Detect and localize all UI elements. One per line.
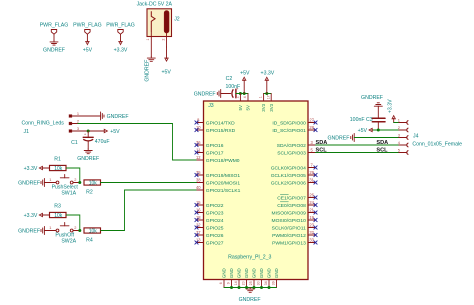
svg-text:3V3: 3V3 <box>261 103 266 111</box>
svg-text:28: 28 <box>309 125 314 130</box>
svg-text:SCL: SCL <box>316 148 328 154</box>
svg-text:470uF: 470uF <box>95 139 110 145</box>
svg-text:26: 26 <box>309 193 314 198</box>
svg-text:SW2A: SW2A <box>61 239 76 245</box>
svg-text:GPIO24: GPIO24 <box>206 218 224 224</box>
svg-text:SDA: SDA <box>316 140 328 146</box>
J3 right pin 21 MISO0/GPIO09 <box>272 208 318 217</box>
svg-text:5: 5 <box>398 148 400 153</box>
svg-text:+: + <box>236 87 238 91</box>
J3 bottom pin 14 GND <box>234 268 242 287</box>
svg-text:J4: J4 <box>413 134 419 140</box>
J3 bottom pin 20 GND <box>242 268 250 287</box>
power flag PWR_FLAG at +5V <box>73 23 102 41</box>
wire C2 to 5V pins <box>236 93 248 95</box>
svg-text:GNDREF: GNDREF <box>18 181 40 187</box>
svg-text:GPIO17: GPIO17 <box>206 150 224 156</box>
svg-text:GNDREF: GNDREF <box>194 92 216 98</box>
wire R4 to GPIO21 <box>101 190 197 231</box>
svg-text:GPIO20/MOSI1: GPIO20/MOSI1 <box>206 180 241 186</box>
svg-text:3: 3 <box>77 126 79 131</box>
resistor R1 10k <box>50 157 67 172</box>
ground GNDREF at SW2A pin 1 <box>18 227 44 235</box>
svg-text:19: 19 <box>309 215 314 220</box>
connector J1 Conn_RING_Leds <box>22 111 80 135</box>
connector J2 Jack-DC 5V 2A <box>137 2 180 57</box>
svg-text:GPIO16: GPIO16 <box>206 143 224 149</box>
J3 left pin 35 GPIO19/MISO1 <box>195 170 241 179</box>
svg-text:1: 1 <box>49 225 51 230</box>
svg-text:+3.3V: +3.3V <box>24 213 38 219</box>
svg-text:10k: 10k <box>54 166 63 172</box>
ground GNDREF at J1 pin 1 <box>101 112 129 120</box>
svg-text:PushSelect: PushSelect <box>52 184 79 190</box>
junction at +3.3V symbol base <box>265 92 268 95</box>
svg-text:20: 20 <box>242 281 246 285</box>
svg-text:17: 17 <box>266 95 270 99</box>
svg-text:PWM0/GPIO12: PWM0/GPIO12 <box>272 233 306 239</box>
junction on GND rail <box>268 286 271 289</box>
svg-text:14: 14 <box>234 281 238 285</box>
svg-text:2: 2 <box>74 177 76 182</box>
IC J3 Raspberry_PI_2_3 body <box>204 101 309 280</box>
svg-text:2: 2 <box>236 96 240 98</box>
resistor R2 10k <box>84 180 101 196</box>
power +5V at J4 pin 2 <box>358 128 373 134</box>
junction switch node <box>78 181 81 184</box>
switch SW1A PushSelect <box>44 175 79 197</box>
svg-text:1: 1 <box>77 111 79 116</box>
J3 left pin 11 GPIO17 <box>195 148 224 157</box>
svg-text:2: 2 <box>74 225 76 230</box>
ground GNDREF under J3 <box>239 288 261 304</box>
pin J1-2 stub <box>72 123 78 125</box>
J3 right pin 32 PWM0/GPIO12 <box>272 230 317 239</box>
svg-text:C1: C1 <box>71 140 78 146</box>
svg-text:J2: J2 <box>174 16 180 22</box>
power +3.3V at J4 pin 1 <box>388 99 396 123</box>
svg-text:GPIO25: GPIO25 <box>206 225 224 231</box>
svg-text:GCLK1/GPIO05: GCLK1/GPIO05 <box>271 173 306 179</box>
svg-text:2: 2 <box>77 118 79 123</box>
svg-text:10k: 10k <box>89 228 98 234</box>
J3 left pin 40 GPIO21/SCLK1 <box>196 185 241 194</box>
J3 left pin 12 GPIO18/PWM0 <box>196 155 240 164</box>
power flag PWR_FLAG at GNDREF <box>40 23 69 41</box>
svg-text:+3.3V: +3.3V <box>114 47 128 53</box>
svg-text:33: 33 <box>309 238 314 243</box>
svg-text:GND: GND <box>222 268 227 278</box>
svg-text:GCLK2/GPIO06: GCLK2/GPIO06 <box>271 180 306 186</box>
svg-text:GPIO19/MISO1: GPIO19/MISO1 <box>206 173 241 179</box>
J3 right pin 24 CE0/GPIO08 <box>277 200 317 209</box>
wire GNDREF to J4 pin 3 <box>354 137 399 139</box>
svg-text:GND: GND <box>267 268 272 278</box>
svg-text:30: 30 <box>257 281 261 285</box>
junction on GND rail <box>260 286 263 289</box>
J3 bottom pin 25 GND <box>249 268 257 287</box>
J3 bottom pin 9 GND <box>227 268 235 287</box>
junction at C1 <box>87 130 90 133</box>
power +3.3V at R3 <box>24 213 50 219</box>
svg-text:GND: GND <box>244 268 249 278</box>
J3 right pin 29 GCLK1/GPIO05 <box>271 170 318 179</box>
svg-text:MOSI0/GPIO10: MOSI0/GPIO10 <box>272 218 307 224</box>
svg-text:GCLK0/GPIO04: GCLK0/GPIO04 <box>271 165 306 171</box>
svg-text:+5V: +5V <box>83 47 93 53</box>
wire R1 to switch node <box>66 168 80 183</box>
svg-text:31: 31 <box>309 178 314 183</box>
capacitor C2 100nF <box>225 76 240 98</box>
J3 left pin 22 GPIO25 <box>195 223 224 232</box>
svg-text:PWM1/GPIO13: PWM1/GPIO13 <box>272 240 306 246</box>
J3 left pin 36 GPIO16 <box>195 140 224 149</box>
pin J1-3 to +5V <box>72 130 104 132</box>
junction at +5V symbol base <box>243 92 246 95</box>
wire GNDREF to C2 <box>221 93 231 95</box>
svg-text:+5V: +5V <box>162 70 172 76</box>
svg-text:SDA/GPIO02: SDA/GPIO02 <box>277 143 306 149</box>
power symbol +3.3V under PWR_FLAG <box>114 40 128 53</box>
svg-text:21: 21 <box>309 208 314 213</box>
wire SCL net GPIO3 to J4 pin 5 <box>316 152 399 154</box>
J3 right pin 26 CE1/GPIO07 <box>277 193 317 202</box>
svg-text:ID_SD/GPIO00: ID_SD/GPIO00 <box>272 120 306 126</box>
J3 top pin 1 3V3 <box>259 94 267 112</box>
wire +5V to J4 pin 2 <box>372 129 399 131</box>
svg-text:6: 6 <box>219 282 223 284</box>
ground GNDREF under C1 <box>77 149 99 162</box>
svg-text:C2: C2 <box>226 76 233 82</box>
J3 top pin 4 5V <box>243 94 251 111</box>
J3 left pin 10 GPIO15/RXD <box>195 125 236 134</box>
J3 right pin 23 SCLK0/GPIO11 <box>272 223 318 232</box>
J3 bottom pin 30 GND <box>257 268 265 287</box>
svg-text:GNDREF: GNDREF <box>107 114 129 120</box>
power +5V at J2 pin 2 <box>162 47 172 76</box>
svg-text:40: 40 <box>196 185 201 190</box>
J3 left pin 15 GPIO22 <box>195 200 224 209</box>
svg-text:3V3: 3V3 <box>269 103 274 111</box>
svg-text:GNDREF: GNDREF <box>327 136 349 142</box>
svg-text:GND: GND <box>237 268 242 278</box>
svg-text:+3.3V: +3.3V <box>388 99 394 113</box>
svg-text:CE1/GPIO07: CE1/GPIO07 <box>277 195 306 201</box>
svg-text:10k: 10k <box>54 213 63 219</box>
J3 bottom pin 39 GND <box>272 268 280 287</box>
svg-text:+: + <box>84 132 86 136</box>
J3 left pin 37 GPIO26 <box>195 230 224 239</box>
svg-text:Conn_01x05_Female: Conn_01x05_Female <box>412 142 462 148</box>
svg-text:+5V: +5V <box>240 71 250 77</box>
svg-text:1: 1 <box>398 118 400 123</box>
svg-text:GPIO15/RXD: GPIO15/RXD <box>206 128 236 134</box>
svg-text:5V: 5V <box>246 105 251 110</box>
J3 right pin 31 GCLK2/GPIO06 <box>271 178 318 187</box>
wire SDA net GPIO2 to J4 pin 4 <box>316 144 399 146</box>
svg-text:12: 12 <box>196 155 201 160</box>
J3 left pin 38 GPIO20/MOSI1 <box>196 178 240 187</box>
svg-text:GND: GND <box>229 268 234 278</box>
J3 right pin 7 GCLK0/GPIO04 <box>271 163 318 172</box>
svg-text:GNDREF: GNDREF <box>239 297 261 303</box>
svg-text:GNDREF: GNDREF <box>144 60 150 82</box>
power +5V at J1 pin 3 <box>104 129 120 135</box>
svg-text:3: 3 <box>398 133 400 138</box>
svg-text:+3.3V: +3.3V <box>261 71 275 77</box>
svg-text:2: 2 <box>161 38 165 40</box>
switch SW2A PushOff <box>44 223 79 245</box>
resistor R4 10k <box>84 228 101 244</box>
wire R3 to switch node <box>66 215 80 231</box>
svg-text:+5V: +5V <box>358 128 368 134</box>
svg-text:1: 1 <box>49 177 51 182</box>
svg-text:GNDREF: GNDREF <box>77 156 99 162</box>
svg-text:Conn_RING_Leds: Conn_RING_Leds <box>22 121 65 127</box>
svg-text:PWR_FLAG: PWR_FLAG <box>106 23 135 29</box>
svg-text:MISO0/GPIO09: MISO0/GPIO09 <box>272 210 307 216</box>
wire J1 pin2 to GPIO18 <box>78 124 197 161</box>
ground GNDREF at SW1A pin 1 <box>18 179 44 187</box>
capacitor C3 100nF <box>350 117 385 130</box>
J3 left pin 13 GPIO27 <box>195 238 224 247</box>
power +3.3V at R1 <box>24 166 50 172</box>
svg-text:1: 1 <box>146 38 150 40</box>
J3 left pin 18 GPIO24 <box>195 215 224 224</box>
J3 right pin 33 PWM1/GPIO13 <box>272 238 317 247</box>
svg-text:+5V: +5V <box>110 129 120 135</box>
power +3.3V above J3 <box>261 71 275 94</box>
svg-text:PWR_FLAG: PWR_FLAG <box>73 23 102 29</box>
junction on GND rail <box>245 286 248 289</box>
junction on GND rail <box>230 286 233 289</box>
power +5V above J3 <box>240 71 250 94</box>
svg-text:39: 39 <box>272 281 276 285</box>
svg-text:27: 27 <box>309 118 314 123</box>
ground GNDREF above C3 <box>361 95 383 117</box>
svg-text:24: 24 <box>309 200 314 205</box>
svg-text:25: 25 <box>249 281 253 285</box>
svg-text:R3: R3 <box>54 204 61 210</box>
svg-text:GPIO21/SCLK1: GPIO21/SCLK1 <box>206 188 241 194</box>
ground GNDREF under PWR_FLAG 1 <box>43 40 65 53</box>
junction on GND rail <box>253 286 256 289</box>
svg-text:Raspberry_PI_2_3: Raspberry_PI_2_3 <box>228 255 271 261</box>
svg-text:GND: GND <box>274 268 279 278</box>
svg-text:PWR_FLAG: PWR_FLAG <box>40 23 69 29</box>
svg-text:J3: J3 <box>208 103 214 109</box>
J3 right pin 19 MOSI0/GPIO10 <box>272 215 318 224</box>
J3 right pin 3 SDA/GPIO02 <box>277 140 316 149</box>
resistor R3 10k <box>50 204 67 219</box>
svg-text:GPIO14/TXD: GPIO14/TXD <box>206 120 235 126</box>
J3 right pin 27 ID_SD/GPIO00 <box>272 118 317 127</box>
pin J1-1 to ground <box>72 115 101 117</box>
svg-text:GNDREF: GNDREF <box>361 95 383 101</box>
power flag PWR_FLAG at +3.3V <box>106 23 135 41</box>
junction switch node <box>78 229 81 232</box>
J3 left pin 16 GPIO23 <box>195 208 224 217</box>
wire GND rail under J3 <box>224 287 277 289</box>
svg-text:SCL: SCL <box>376 148 388 154</box>
svg-text:4: 4 <box>243 96 247 98</box>
svg-text:R2: R2 <box>86 190 93 196</box>
svg-text:Jack-DC 5V 2A: Jack-DC 5V 2A <box>137 2 173 8</box>
svg-text:SDA: SDA <box>376 140 388 146</box>
power symbol +5V under PWR_FLAG <box>83 40 93 53</box>
capacitor C1 470uF <box>71 131 109 149</box>
junction on GND rail <box>238 286 241 289</box>
svg-text:SW1A: SW1A <box>61 191 76 197</box>
J3 bottom pin 6 GND <box>219 268 227 287</box>
svg-text:GND: GND <box>259 268 264 278</box>
svg-text:R4: R4 <box>86 238 93 244</box>
svg-text:34: 34 <box>264 281 268 285</box>
svg-text:29: 29 <box>309 170 314 175</box>
svg-text:PushOff: PushOff <box>55 232 74 238</box>
svg-text:32: 32 <box>309 230 314 235</box>
J3 right pin 5 SCL/GPIO03 <box>277 148 315 157</box>
wire 3V3 pins <box>264 93 272 95</box>
svg-text:R1: R1 <box>54 157 61 163</box>
svg-text:+3.3V: +3.3V <box>24 166 38 172</box>
svg-text:100nF C3: 100nF C3 <box>350 117 373 123</box>
svg-text:1: 1 <box>259 96 263 98</box>
junction at 5V pin 2 top <box>239 92 242 95</box>
wire R2 to GPIO20 <box>101 182 197 184</box>
svg-text:GPIO18/PWM0: GPIO18/PWM0 <box>206 158 240 164</box>
svg-text:23: 23 <box>309 223 314 228</box>
svg-text:5V: 5V <box>238 105 243 110</box>
svg-text:J1: J1 <box>24 129 30 135</box>
svg-text:9: 9 <box>227 282 231 284</box>
svg-text:GND: GND <box>252 268 257 278</box>
ground GNDREF at J2 pin 1 <box>144 57 155 82</box>
J3 left pin 8 GPIO14/TXD <box>195 118 235 127</box>
svg-text:SCLK0/GPIO11: SCLK0/GPIO11 <box>272 225 306 231</box>
svg-text:GPIO23: GPIO23 <box>206 210 224 216</box>
J3 right pin 28 ID_SC/GPIO01 <box>272 125 317 134</box>
svg-text:GPIO26: GPIO26 <box>206 233 224 239</box>
connector J4 Conn_01x05_Female <box>398 118 462 155</box>
svg-text:GPIO22: GPIO22 <box>206 203 224 209</box>
svg-text:GPIO27: GPIO27 <box>206 240 224 246</box>
J3 top pin 17 3V3 <box>266 94 274 112</box>
wire +3.3V to J4 pin 1 <box>394 122 399 124</box>
svg-text:2: 2 <box>398 125 400 130</box>
ground GNDREF left of C2 <box>194 90 221 98</box>
svg-text:GNDREF: GNDREF <box>43 47 65 53</box>
junction C3 on +5V wire <box>377 129 380 132</box>
J3 top pin 2 5V <box>236 94 244 111</box>
ground GNDREF at J4 pin 3 <box>327 134 354 142</box>
svg-text:ID_SC/GPIO01: ID_SC/GPIO01 <box>272 128 306 134</box>
J3 bottom pin 34 GND <box>264 268 272 287</box>
svg-text:38: 38 <box>196 178 201 183</box>
svg-text:GNDREF: GNDREF <box>18 229 40 235</box>
svg-text:CE0/GPIO08: CE0/GPIO08 <box>277 203 306 209</box>
svg-text:SCL/GPIO03: SCL/GPIO03 <box>277 150 306 156</box>
svg-text:10k: 10k <box>89 180 98 186</box>
